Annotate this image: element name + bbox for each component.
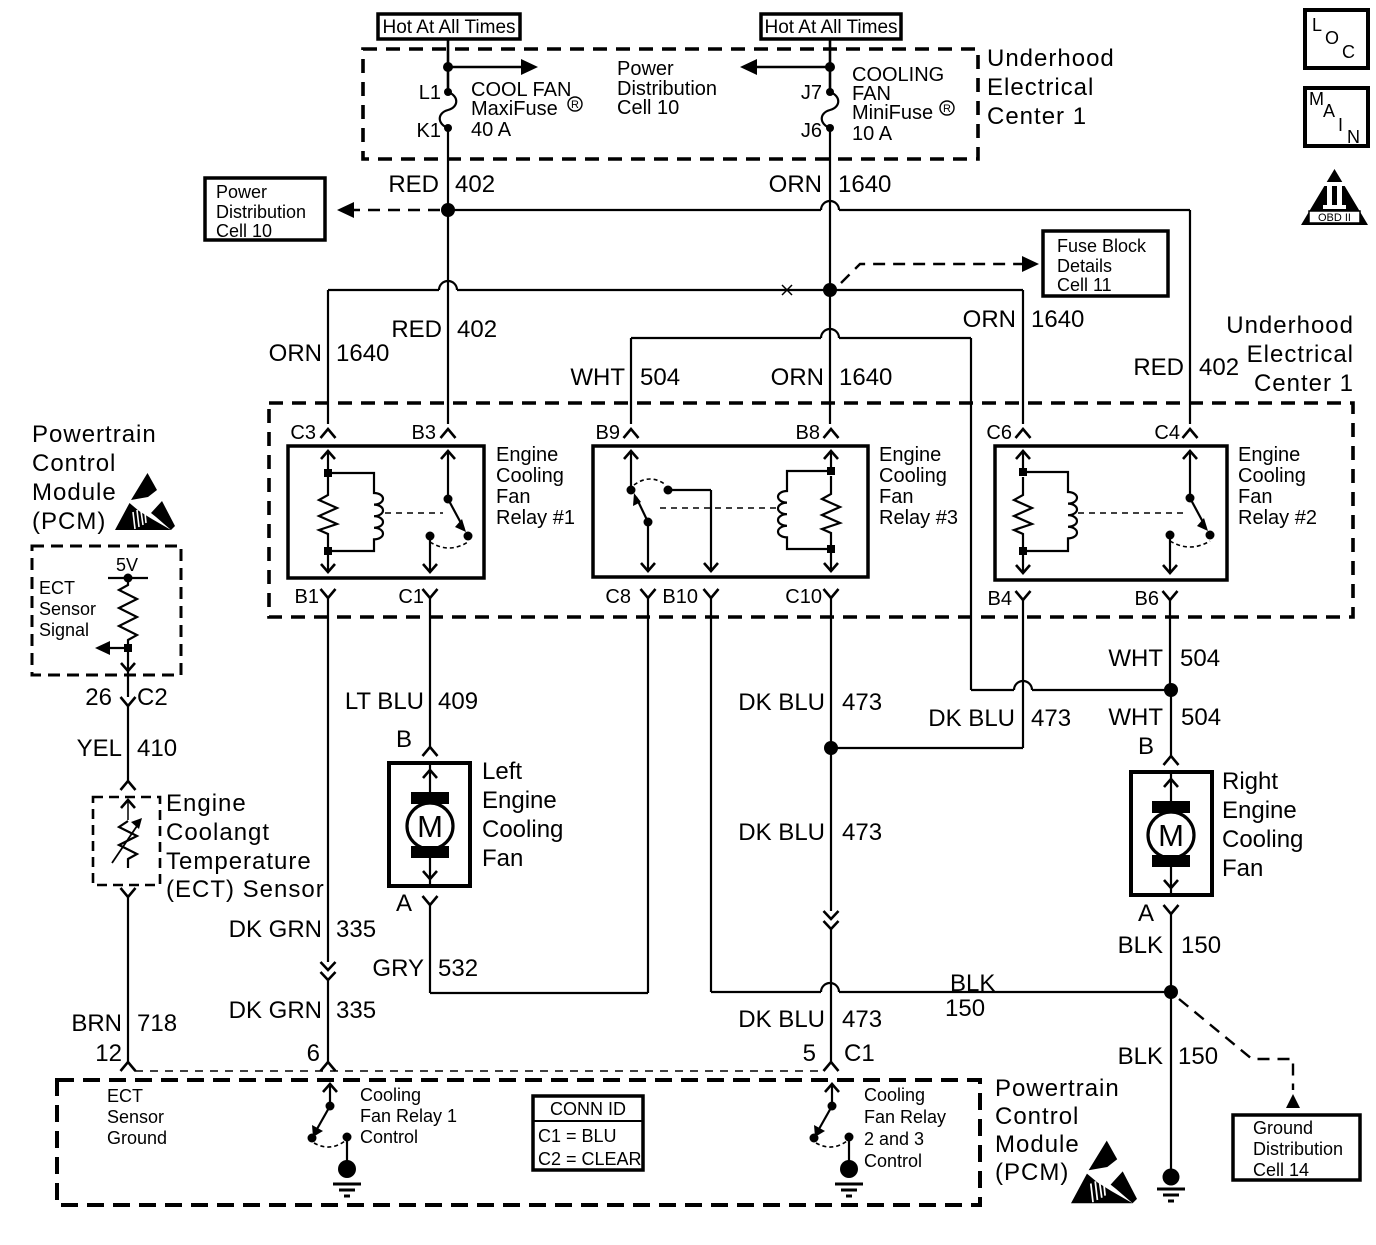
- svg-text:B: B: [396, 726, 412, 753]
- relay3 actuation dashed link: [660, 507, 776, 509]
- PCM ECT-signal dashed box: [32, 546, 181, 675]
- wire arrow to right (power distribution feed): [448, 59, 538, 75]
- label Power Distribution Cell 10 (inside UEC box): [617, 58, 717, 119]
- wire BLK 150 from fan A to ground: [1170, 914, 1172, 1170]
- svg-text:L: L: [1312, 15, 1322, 35]
- right fan A connector: [1164, 905, 1179, 914]
- Hot At All Times box (right): [761, 14, 901, 39]
- PCM pull-up resistor: [119, 578, 137, 648]
- svg-text:YEL: YEL: [77, 735, 122, 762]
- motor M2 Right Engine Cooling Fan: [1131, 772, 1212, 895]
- wire RED 402 horizontal to C4 drop: [448, 201, 1190, 210]
- svg-text:Right: Right: [1222, 768, 1278, 795]
- relay2 resistor: [1014, 477, 1032, 549]
- svg-text:C2: C2: [137, 684, 168, 711]
- svg-text:Module: Module: [32, 479, 117, 506]
- label ORN 1640 (C6): [963, 306, 1085, 333]
- pin C6 connector: [1016, 429, 1031, 438]
- svg-text:Cooling: Cooling: [482, 816, 563, 843]
- label BLK 150 (stacked): [945, 970, 995, 1022]
- PCM driver 2 contact node: [845, 1133, 854, 1142]
- svg-text:Fan: Fan: [496, 486, 530, 508]
- wire DK GRN 335 to PCM pin 6: [327, 980, 329, 1062]
- relay1 arrow down to B1: [321, 551, 335, 572]
- svg-text:Cooling: Cooling: [1222, 826, 1303, 853]
- Fuse Block Details Cell 11 reference box: [1043, 231, 1168, 296]
- label DK BLU 473 (upper): [738, 689, 882, 716]
- svg-text:A: A: [1138, 900, 1154, 927]
- wire ORN 1640 horizontal C3 to C6: [328, 281, 1023, 290]
- svg-text:409: 409: [438, 688, 478, 715]
- relay1 switch arrow up: [441, 451, 455, 499]
- splice mark x: [782, 285, 792, 295]
- CONN ID table: [533, 1096, 643, 1170]
- svg-text:473: 473: [842, 1006, 882, 1033]
- svg-text:R: R: [943, 103, 951, 115]
- PCM driver 1 arm end node: [308, 1134, 317, 1143]
- wire ORN 1640 down to B8: [829, 290, 831, 424]
- svg-text:Sensor: Sensor: [39, 599, 96, 619]
- in-line connector (YEL to ECT sensor): [121, 781, 136, 790]
- wire ORN 1640 down to C6: [1022, 290, 1024, 424]
- svg-text:(PCM): (PCM): [995, 1159, 1069, 1186]
- svg-text:150: 150: [1181, 932, 1221, 959]
- svg-text:RED: RED: [388, 171, 439, 198]
- label RED 402 (B3): [391, 316, 497, 343]
- svg-text:Signal: Signal: [39, 620, 89, 640]
- relay3 arm node: [644, 518, 653, 527]
- label DK BLU 473 (branch): [928, 705, 1071, 732]
- svg-text:LT BLU: LT BLU: [345, 688, 424, 715]
- Hot At All Times box (left): [378, 14, 520, 39]
- fuse COOL FAN MaxiFuse 40A (L1-K1): [440, 88, 457, 132]
- svg-text:Electrical: Electrical: [1247, 341, 1354, 368]
- svg-text:Fan: Fan: [879, 486, 913, 508]
- PCM driver 1 wire to ground: [346, 1137, 348, 1162]
- fuse COOLING FAN MiniFuse 10A (J7-J6): [822, 88, 839, 132]
- svg-text:B4: B4: [988, 588, 1012, 610]
- svg-text:Cell 10: Cell 10: [617, 97, 679, 119]
- svg-text:(PCM): (PCM): [32, 508, 106, 535]
- svg-text:12: 12: [95, 1040, 122, 1067]
- right fan B connector: [1164, 756, 1179, 765]
- svg-text:Cell 11: Cell 11: [1057, 275, 1112, 295]
- svg-text:RED: RED: [1133, 354, 1184, 381]
- wire LT BLU 409 from C1 to left fan B: [429, 598, 431, 747]
- svg-text:Engine: Engine: [1238, 444, 1300, 466]
- wire RED 402 down to B3: [447, 210, 449, 424]
- svg-text:473: 473: [842, 689, 882, 716]
- relay3 switch arrow up: [624, 451, 638, 490]
- svg-text:402: 402: [457, 316, 497, 343]
- svg-text:Hot At All Times: Hot At All Times: [764, 17, 897, 38]
- 5V supply bar: [108, 577, 148, 579]
- label ECT Sensor Signal: [39, 578, 96, 640]
- svg-text:Power: Power: [216, 182, 267, 202]
- svg-text:BRN: BRN: [71, 1010, 122, 1037]
- svg-text:MiniFuse: MiniFuse: [852, 102, 933, 124]
- svg-text:BLK: BLK: [1118, 1043, 1163, 1070]
- svg-text:Fan: Fan: [482, 845, 523, 872]
- pin 26 C2 connector: [121, 697, 136, 706]
- relay2 coil top node: [1019, 468, 1027, 476]
- relay2 B6 contact node: [1166, 531, 1175, 540]
- svg-text:DK BLU: DK BLU: [738, 1006, 825, 1033]
- node fuse feed junction: [443, 62, 453, 72]
- wire DK GRN 335 from B1 down: [327, 598, 329, 962]
- relay2 switch arrow up: [1183, 451, 1197, 498]
- relay3 NO contact node: [664, 486, 673, 495]
- PCM driver 2 arrow up to pin 5: [825, 1084, 839, 1106]
- OBD II emblem: [1301, 169, 1368, 225]
- wire RED 402 down to C4: [1189, 210, 1191, 424]
- svg-text:410: 410: [137, 735, 177, 762]
- label Engine Cooling Fan Relay #2: [1238, 444, 1317, 529]
- svg-text:504: 504: [1180, 645, 1220, 672]
- relay1 C1 contact node: [426, 532, 435, 541]
- relay K1 Engine Cooling Fan Relay #1: [288, 446, 484, 578]
- svg-text:Engine: Engine: [496, 444, 558, 466]
- svg-text:335: 335: [336, 916, 376, 943]
- svg-text:Ground: Ground: [107, 1128, 167, 1148]
- in-line connector (DK BLU): [824, 911, 839, 929]
- label WHT 504 (B9): [570, 364, 680, 391]
- svg-text:MaxiFuse: MaxiFuse: [471, 98, 558, 120]
- label YEL 410: [77, 735, 177, 762]
- relay3 switch travel dashed arc: [634, 479, 666, 485]
- relay1 switch NO contact node: [464, 532, 473, 541]
- relay1 resistor: [319, 477, 337, 549]
- wire down with arrow exiting PCM: [121, 648, 135, 697]
- svg-text:B8: B8: [796, 422, 820, 444]
- pin B1 connector: [321, 589, 336, 598]
- svg-text:Distribution: Distribution: [216, 202, 306, 222]
- dashed wire arrow to Power Distribution box: [337, 202, 440, 218]
- svg-text:10 A: 10 A: [852, 123, 893, 145]
- wire WHT 504 to right fan B: [1170, 690, 1172, 756]
- svg-text:Fan: Fan: [1238, 486, 1272, 508]
- relay1 C1 wire down: [423, 536, 437, 572]
- svg-text:K1: K1: [417, 120, 441, 142]
- svg-text:Cooling: Cooling: [879, 465, 947, 487]
- svg-text:O: O: [1325, 28, 1339, 48]
- svg-text:Engine: Engine: [879, 444, 941, 466]
- svg-text:Relay #2: Relay #2: [1238, 507, 1317, 529]
- label Underhood Electrical Center 1 (top right): [987, 45, 1115, 130]
- svg-text:504: 504: [640, 364, 680, 391]
- svg-text:Engine: Engine: [1222, 797, 1297, 824]
- wire RED 402 from fuse K1 down to junction: [447, 128, 449, 210]
- PCM driver 1 travel dashed arc: [314, 1141, 345, 1147]
- ECT thermistor zigzag: [119, 821, 137, 868]
- svg-text:(ECT) Sensor: (ECT) Sensor: [166, 876, 325, 903]
- label Right Engine Cooling Fan: [1222, 768, 1303, 882]
- svg-text:C: C: [1342, 42, 1355, 62]
- pin C4 connector: [1183, 429, 1198, 438]
- PCM driver 1 switch node: [326, 1102, 335, 1111]
- svg-text:CONN ID: CONN ID: [550, 1099, 626, 1119]
- label LT BLU 409: [345, 688, 478, 715]
- node ECT signal sense: [124, 644, 132, 652]
- relay1 coil top node: [324, 469, 332, 477]
- label Powertrain Control Module (PCM): [32, 421, 157, 535]
- svg-text:40 A: 40 A: [471, 119, 512, 141]
- svg-text:6: 6: [307, 1040, 320, 1067]
- left fan B connector: [423, 747, 438, 756]
- svg-text:M: M: [1309, 89, 1324, 109]
- svg-text:Distribution: Distribution: [1253, 1139, 1343, 1159]
- wire YEL 410: [127, 706, 129, 781]
- svg-text:Cooling: Cooling: [1238, 465, 1306, 487]
- svg-text:B: B: [1138, 733, 1154, 760]
- wire WHT 504 from B9 up and over to right fan feed: [631, 329, 971, 690]
- label BRN 718: [71, 1010, 177, 1037]
- svg-text:Power: Power: [617, 58, 674, 80]
- label ORN 1640 (C3): [269, 340, 390, 367]
- node WHT junction: [1164, 683, 1178, 697]
- svg-text:C1: C1: [398, 586, 424, 608]
- relay3 switch pivot node: [627, 486, 636, 495]
- svg-text:B6: B6: [1135, 588, 1159, 610]
- relay2 actuation dashed link: [1078, 512, 1183, 514]
- pin 12 connector: [121, 1062, 136, 1071]
- svg-text:J6: J6: [801, 120, 822, 142]
- svg-text:OBD II: OBD II: [1318, 212, 1351, 224]
- pin 5 connector: [824, 1062, 839, 1071]
- svg-text:402: 402: [1199, 354, 1239, 381]
- label Powertrain Control Module (PCM) lower: [995, 1075, 1120, 1186]
- pin C8 connector: [641, 589, 656, 598]
- relay1 switch common node: [444, 495, 453, 504]
- PCM driver 1 contact node: [343, 1133, 352, 1142]
- relay1 switch travel dashed arc: [430, 542, 468, 548]
- svg-text:Relay #1: Relay #1: [496, 507, 575, 529]
- relay3 arrow down to C10: [824, 549, 838, 571]
- svg-text:Control: Control: [864, 1151, 922, 1171]
- relay3 wire NO contact to B10: [668, 490, 718, 571]
- relay1 actuation dashed link: [385, 512, 443, 514]
- Ground Distribution Cell 14 reference box: [1233, 1115, 1360, 1180]
- svg-text:WHT: WHT: [1108, 645, 1163, 672]
- relay3 resistor: [822, 476, 840, 547]
- svg-text:Cooling: Cooling: [864, 1085, 925, 1105]
- wire BLK 150 from B10 to right ground junction: [711, 598, 1171, 992]
- svg-text:BLK: BLK: [950, 970, 995, 997]
- svg-text:Fuse Block: Fuse Block: [1057, 236, 1147, 256]
- svg-text:I: I: [1338, 115, 1343, 135]
- svg-text:Temperature: Temperature: [166, 848, 312, 875]
- wire WHT 504 from B6 down: [1169, 600, 1171, 690]
- wire ORN 1640 from fuse J6 down: [829, 128, 831, 290]
- svg-text:ORN: ORN: [963, 306, 1016, 333]
- LOC legend box: [1305, 10, 1368, 68]
- ground (PCM driver 1): [333, 1160, 361, 1196]
- svg-text:Module: Module: [995, 1131, 1080, 1158]
- svg-text:J7: J7: [801, 82, 822, 104]
- svg-text:26: 26: [85, 684, 112, 711]
- wire BRN 718 to PCM pin 12: [127, 897, 129, 1062]
- relay3 switch arm: [633, 493, 648, 522]
- relay1 switch arm: [448, 499, 466, 532]
- wire DK BLU 473 branch to B4: [831, 600, 1023, 748]
- label WHT 504 (upper): [1108, 645, 1220, 672]
- label Engine Cooling Fan Relay #1: [496, 444, 575, 529]
- relay3 wire arm to C8: [641, 522, 655, 571]
- svg-text:473: 473: [1031, 705, 1071, 732]
- svg-text:2 and 3: 2 and 3: [864, 1129, 924, 1149]
- node fuse feed junction right: [825, 62, 835, 72]
- relay3 coil bottom node: [827, 545, 835, 553]
- label Engine Coolangt Temperature (ECT) Sensor: [166, 790, 325, 903]
- svg-text:C2 = CLEAR: C2 = CLEAR: [538, 1149, 642, 1169]
- svg-text:335: 335: [336, 997, 376, 1024]
- svg-text:ECT: ECT: [39, 578, 75, 598]
- signal sense arrow left: [95, 641, 128, 655]
- ground G (right fan): [1157, 1169, 1185, 1202]
- svg-text:C10: C10: [785, 586, 822, 608]
- label DK BLU 473 (middle): [738, 819, 882, 846]
- svg-text:RED: RED: [391, 316, 442, 343]
- PCM driver 1 arrow up to pin 6: [323, 1084, 337, 1106]
- label DK GRN 335 (upper): [229, 916, 376, 943]
- svg-text:718: 718: [137, 1010, 177, 1037]
- svg-text:Coolangt: Coolangt: [166, 819, 270, 846]
- pin C1 connector: [423, 589, 438, 598]
- wire arrow to left (power distribution feed): [740, 59, 830, 75]
- svg-text:ORN: ORN: [269, 340, 322, 367]
- svg-text:1640: 1640: [839, 364, 892, 391]
- svg-text:402: 402: [455, 171, 495, 198]
- pin B10 connector: [704, 589, 719, 598]
- svg-text:Cell 14: Cell 14: [1253, 1160, 1309, 1180]
- relay1 coil winding: [328, 473, 383, 551]
- in-line connector (DK GRN): [321, 962, 336, 980]
- ECT thermistor variable arrow: [112, 818, 142, 863]
- label BLK 150 (fan): [1118, 932, 1221, 959]
- wire DK BLU 473 lower to pin 5: [830, 929, 832, 1062]
- svg-text:B1: B1: [295, 586, 319, 608]
- relay2 switch NO contact node: [1206, 531, 1215, 540]
- svg-text:Left: Left: [482, 758, 522, 785]
- label Cooling Fan Relay 2 and 3 Control: [864, 1085, 946, 1171]
- pin B8 connector: [824, 429, 839, 438]
- label RED 402: [388, 171, 495, 198]
- relay2 arrow down to B4: [1016, 551, 1030, 573]
- value label COOLING FAN MiniFuse 10 A: [852, 64, 954, 145]
- left fan A connector: [423, 896, 438, 905]
- relay2 switch arm: [1190, 498, 1208, 531]
- value label COOL FAN MaxiFuse 40 A: [471, 79, 582, 141]
- ECT sensor dashed box: [93, 797, 160, 885]
- ECT sensor exit connector: [121, 888, 136, 897]
- node RED junction: [441, 203, 455, 217]
- svg-text:Cooling: Cooling: [360, 1085, 421, 1105]
- svg-text:DK BLU: DK BLU: [738, 689, 825, 716]
- svg-text:B9: B9: [596, 422, 620, 444]
- label Underhood Electrical Center 1 (right, above relay row): [1226, 312, 1354, 397]
- svg-text:DK GRN: DK GRN: [229, 916, 322, 943]
- Power Distribution Cell 10 reference box (left): [205, 178, 325, 241]
- relay3 coil winding: [778, 471, 831, 549]
- label DK BLU 473 (lower): [738, 1006, 882, 1033]
- svg-text:473: 473: [842, 819, 882, 846]
- label Engine Cooling Fan Relay #3: [879, 444, 958, 529]
- svg-text:150: 150: [945, 995, 985, 1022]
- relay2 switch common node: [1186, 494, 1195, 503]
- pin B4 connector: [1016, 591, 1031, 600]
- ESD warning symbol (PCM lower): [1071, 1141, 1137, 1204]
- svg-text:C6: C6: [986, 422, 1012, 444]
- svg-text:ECT: ECT: [107, 1086, 143, 1106]
- MAIN legend box: [1305, 88, 1368, 147]
- svg-text:Control: Control: [32, 450, 116, 477]
- dashed reference to Ground Distribution: [1179, 999, 1300, 1108]
- svg-text:R: R: [571, 99, 579, 111]
- dashed wire arrow to Fuse Block Details box: [841, 256, 1039, 283]
- svg-text:M: M: [417, 809, 443, 844]
- svg-text:Fan: Fan: [1222, 855, 1263, 882]
- wire WHT 504 horizontal into right fan feed: [971, 681, 1171, 690]
- svg-text:WHT: WHT: [570, 364, 625, 391]
- svg-text:Relay #3: Relay #3: [879, 507, 958, 529]
- svg-text:Cooling: Cooling: [496, 465, 564, 487]
- svg-text:504: 504: [1181, 704, 1221, 731]
- svg-text:C8: C8: [605, 586, 631, 608]
- svg-text:5V: 5V: [116, 555, 138, 575]
- relay2 B6 wire down: [1163, 535, 1177, 573]
- node DK BLU branch junction: [824, 741, 838, 755]
- svg-text:DK BLU: DK BLU: [738, 819, 825, 846]
- relay2 coil winding: [1023, 472, 1077, 551]
- node BLK ground junction: [1164, 985, 1178, 999]
- Underhood Electrical Center 1 dashed box (top): [363, 49, 978, 159]
- relay K3 Engine Cooling Fan Relay #3: [593, 446, 868, 577]
- Underhood Electrical Center 1 dashed box (relay row): [269, 403, 1353, 617]
- PCM driver 1 switch arm: [312, 1106, 330, 1137]
- svg-text:A: A: [1323, 101, 1335, 121]
- svg-text:Sensor: Sensor: [107, 1107, 164, 1127]
- svg-text:C1: C1: [844, 1040, 875, 1067]
- svg-text:Engine: Engine: [166, 790, 247, 817]
- pin B3 connector: [441, 429, 456, 438]
- svg-text:150: 150: [1178, 1043, 1218, 1070]
- svg-text:5: 5: [803, 1040, 816, 1067]
- svg-text:M: M: [1158, 818, 1184, 853]
- node 5V tap: [124, 574, 133, 583]
- wire DK BLU 473 from C10 down to PCM pin 5: [830, 598, 832, 911]
- svg-text:Powertrain: Powertrain: [995, 1075, 1120, 1102]
- label Cooling Fan Relay 1 Control: [360, 1085, 457, 1147]
- label DK GRN 335 (lower): [229, 997, 376, 1024]
- label ECT Sensor Ground: [107, 1086, 167, 1148]
- relay3 coil-side arrow up: [824, 451, 838, 471]
- svg-text:Control: Control: [360, 1127, 418, 1147]
- wire GRY 532 from fan A to C8: [430, 598, 648, 993]
- label RED 402 (C4): [1133, 354, 1239, 381]
- svg-text:Cell 10: Cell 10: [216, 221, 272, 241]
- svg-text:Center 1: Center 1: [1254, 370, 1354, 397]
- relay1 coil-side arrow up: [321, 451, 335, 473]
- svg-text:Underhood: Underhood: [1226, 312, 1354, 339]
- motor M1 Left Engine Cooling Fan: [389, 763, 470, 886]
- svg-text:Electrical: Electrical: [987, 74, 1094, 101]
- PCM driver 2 travel dashed arc: [816, 1141, 847, 1147]
- svg-text:B3: B3: [412, 422, 436, 444]
- svg-text:WHT: WHT: [1108, 704, 1163, 731]
- pin 6 connector: [321, 1062, 336, 1071]
- connector C1/C2 boundary dashed line: [135, 1070, 823, 1072]
- PCM driver 2 wire to ground: [848, 1137, 850, 1162]
